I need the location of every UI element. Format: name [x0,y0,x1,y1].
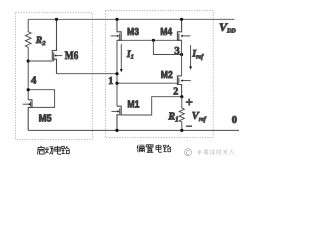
startup circuit dashed box [16,13,93,140]
svg-text:M6: M6 [65,50,79,62]
caption: pian zhi dian lu (bias circuit) [137,145,171,153]
node 4 column wire [27,61,29,100]
wire M4 drain to M2 drain [181,40,183,76]
svg-text:Iref: Iref [191,50,204,61]
junction dot M3 source on VDD [115,18,118,21]
node 1 lower junction dot [115,82,118,85]
caption: qi dong dian lu (startup circuit) [37,146,70,154]
wire M3 gate to M4 gate [117,39,182,41]
resistor R1 [179,97,184,131]
M5 diode-connect loop wire [28,90,54,108]
junction dot M1 source on ground [115,129,118,132]
transistor M3 [111,19,122,40]
svg-text:M1: M1 [127,99,139,111]
junction dot on gate wire [152,39,155,42]
svg-text:M4: M4 [160,26,172,38]
svg-text:M3: M3 [127,26,139,38]
watermark text: ban dao ti ji shu ren [197,149,234,155]
junction dot R1 on ground [180,129,183,132]
watermark logo circle [185,149,192,156]
wire M6 source to node 1 [57,73,118,75]
svg-text:R1: R1 [167,112,178,124]
svg-text:2: 2 [173,87,178,98]
svg-text:0: 0 [232,115,237,126]
wire node 1 to M2 gate [117,82,179,84]
ground rail wire (net 0) [28,129,239,131]
bias circuit dashed box [105,11,213,138]
transistor M6 [52,19,62,73]
svg-text:1: 1 [108,76,113,87]
label - (Vref minus) [186,126,192,127]
transistor M4 [177,19,190,40]
wire M1 to node 2 [121,97,182,115]
svg-text:M2: M2 [161,69,173,81]
svg-text:M5: M5 [39,113,52,125]
transistor M2 [177,76,190,97]
node 1 column wire [116,40,118,106]
svg-text:4: 4 [31,74,37,86]
junction dot M5 loop [27,88,30,91]
current arrow I1 [120,44,123,72]
node 4 junction dot (to M6 gate) [27,59,30,62]
wire gate net down to node 3 [153,40,181,54]
junction dot M6 drain on VDD [55,18,58,21]
current arrow Iref [189,45,192,70]
svg-text:Vref: Vref [192,111,207,123]
node 2 junction dot [180,95,183,98]
svg-text:VDD: VDD [219,20,236,34]
transistor M5 [23,100,32,131]
node 3 junction dot [180,53,183,56]
node 1 upper junction dot [115,72,118,75]
VDD rail wire [28,18,234,20]
svg-text:+: + [186,95,193,110]
resistor R2 [25,19,31,61]
svg-text:R2: R2 [35,36,46,47]
svg-text:I1: I1 [126,50,134,61]
transistor M1 [111,106,121,130]
svg-text:3: 3 [174,45,180,57]
wire node4 to M6 gate [28,60,54,62]
junction dot M4 source on VDD [180,18,183,21]
